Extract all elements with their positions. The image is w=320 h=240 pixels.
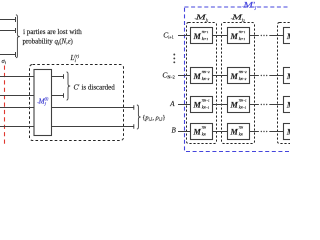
- measurement box r1c1: [191, 28, 213, 44]
- svg-text:πN−1: πN−1: [239, 98, 247, 103]
- wire top-group 2: [0, 28, 16, 33]
- measurement box r3c1: [191, 97, 213, 113]
- dashed box M_{j1}: [187, 23, 217, 144]
- svg-text:kN−1: kN−1: [202, 104, 210, 109]
- svg-text:M: M: [193, 32, 202, 41]
- measurement box r1c2: [228, 28, 250, 44]
- measurement box r4c1: [191, 124, 213, 140]
- measurement box r4c2: [228, 124, 250, 140]
- svg-text:kN−1: kN−1: [239, 104, 247, 109]
- wire top-group 1: [0, 17, 16, 22]
- svg-text:Mj2: Mj2: [231, 12, 246, 22]
- svg-text:A: A: [169, 100, 175, 108]
- svg-text:Mj1: Mj1: [194, 12, 209, 22]
- label M_{j2}: [231, 17, 233, 20]
- svg-text:i parties are lost with: i parties are lost with: [23, 28, 82, 36]
- svg-text:σi: σi: [2, 58, 7, 65]
- svg-text:M: M: [286, 100, 290, 109]
- dashed box M_{j2}: [222, 23, 255, 144]
- svg-text:M: M: [193, 127, 202, 136]
- svg-text:πN−2: πN−2: [239, 69, 247, 74]
- svg-text:πN−2: πN−2: [202, 69, 210, 74]
- row 3 ellipsis: [261, 104, 268, 105]
- svg-text:M: M: [286, 72, 290, 81]
- input wire 4: [0, 126, 34, 128]
- output wire 2: [52, 124, 134, 129]
- svg-text:πi+1: πi+1: [239, 29, 246, 34]
- row 1 ellipsis: [261, 35, 268, 36]
- wire top-group 3: [0, 52, 16, 57]
- gate box U: [34, 70, 52, 136]
- output wire 1: [52, 105, 134, 110]
- text: lost parties note: [23, 28, 83, 46]
- brace for lost parties: [16, 15, 20, 58]
- blue dashed box M'_J: [185, 7, 297, 152]
- svg-text:M: M: [286, 32, 290, 41]
- svg-text:M: M: [230, 72, 239, 81]
- svg-text:kN−2: kN−2: [239, 76, 247, 81]
- svg-text:Ci+1: Ci+1: [163, 30, 173, 39]
- svg-text:M: M: [286, 127, 290, 136]
- row 4 wires: [178, 131, 284, 133]
- svg-text:CN−2: CN−2: [162, 70, 174, 79]
- svg-text:M: M: [193, 100, 202, 109]
- red dashed cut line: [4, 66, 6, 145]
- discard stub wire 2: [52, 93, 64, 98]
- input wire 1: [0, 76, 34, 78]
- row 4 ellipsis: [261, 131, 268, 132]
- measurement box r1c3 (cut): [284, 28, 306, 44]
- svg-text:M: M: [230, 100, 239, 109]
- dashed box M_{j3} (cut): [278, 23, 308, 144]
- svg-text:{pi,J, ρi,J}: {pi,J, ρi,J}: [142, 115, 165, 123]
- measurement box r2c2: [228, 68, 250, 84]
- brace for output states: [137, 105, 141, 129]
- input wire 3: [0, 107, 34, 109]
- vertical dots: [173, 54, 175, 64]
- svg-text:ki+1: ki+1: [239, 36, 246, 41]
- row 2 ellipsis: [261, 75, 268, 76]
- blue label M_J^(i) inside gate: [37, 101, 39, 104]
- input wire 2: [0, 95, 34, 97]
- svg-text:B: B: [172, 127, 177, 135]
- svg-text:L(r)i: L(r)i: [70, 54, 80, 64]
- svg-text:C′ is discarded: C′ is discarded: [74, 84, 116, 92]
- measurement box r3c3 (cut): [284, 97, 306, 113]
- svg-text:ki+1: ki+1: [202, 36, 209, 41]
- row 2 wires: [178, 75, 284, 77]
- svg-text:M′J: M′J: [242, 0, 257, 12]
- row 3 wires: [178, 104, 284, 106]
- svg-text:M: M: [230, 127, 239, 136]
- svg-text:πi+1: πi+1: [202, 29, 209, 34]
- svg-text:πN−1: πN−1: [202, 98, 210, 103]
- measurement box r2c3 (cut): [284, 68, 306, 84]
- brace for discarded C': [67, 72, 71, 100]
- measurement box r4c3 (cut): [284, 124, 306, 140]
- row 1 wires: [178, 35, 284, 37]
- svg-text:M: M: [230, 32, 239, 41]
- svg-text:M: M: [193, 72, 202, 81]
- dashed channel box: [30, 65, 124, 141]
- label M_{j1}: [195, 17, 197, 20]
- measurement box r2c1: [191, 68, 213, 84]
- measurement box r3c2: [228, 97, 250, 113]
- svg-text:probability qi(N,ε): probability qi(N,ε): [23, 39, 73, 46]
- svg-text:kN−2: kN−2: [202, 76, 210, 81]
- blue label M'_J: [242, 5, 244, 8]
- discard stub wire 1: [52, 74, 64, 79]
